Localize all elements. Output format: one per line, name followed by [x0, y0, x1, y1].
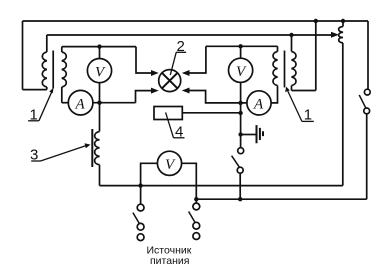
wire left outer vertical [22, 21, 24, 90]
switch S1 upper contact [137, 204, 144, 211]
wire left source switch stub [140, 186, 142, 205]
switch S4 upper contact [364, 89, 370, 95]
rheostat R1 coil top-right [339, 21, 343, 43]
label 1 right pointer [288, 91, 302, 122]
wire right outer vertical to switch S4 [367, 21, 369, 89]
wire lower-right arrow branch [189, 91, 247, 103]
ground symbol [257, 125, 264, 143]
label 3 underline [31, 160, 40, 162]
wiper arrowhead into rheostat [331, 32, 339, 38]
wire bottom line2 [196, 198, 366, 200]
wire down vertical through variac T3 [99, 103, 101, 132]
wire V1 bottom stub [99, 83, 101, 103]
label 1 left pointer [39, 91, 52, 121]
switch S2 blade [189, 212, 196, 223]
switch S2 upper contact [193, 203, 200, 210]
switch S1 lower contact [137, 223, 144, 230]
label 2 underline [176, 51, 186, 53]
switch S4 lower contact [364, 108, 370, 114]
transformer T2 primary coil [292, 35, 297, 91]
arrowhead upper-right into indicator [182, 70, 190, 76]
wire upper-left arrow branch [136, 47, 152, 73]
wire rheostat bottom vertical [342, 43, 344, 186]
label 1 left underline [28, 120, 39, 122]
wire T1 secondary top to node [62, 46, 136, 48]
label 2 pointer line [170, 52, 176, 75]
wire A1 right to node and on to lower-left arrow [93, 102, 136, 104]
node junction at V2 top [238, 44, 242, 48]
wire T3 bottom to bus [99, 165, 101, 186]
svg-text:V: V [236, 64, 247, 80]
transformer T2 right (label 1) secondary coil [273, 46, 278, 85]
node junction V3 right on line2 [194, 197, 198, 201]
svg-text:A: A [253, 97, 264, 113]
transformer T1 core [52, 51, 54, 89]
ammeter A1 [68, 90, 93, 115]
node junction at V1 top [97, 44, 101, 48]
svg-text:V: V [95, 64, 106, 80]
label 1 right underline [302, 120, 314, 122]
switch S1 blade [133, 213, 140, 224]
wire V1 top stub [99, 47, 101, 59]
node junction below V1 [97, 101, 101, 105]
node junction ground tap [238, 132, 242, 136]
label 3 pointer [41, 146, 87, 161]
wire y=46.3 to right transformer [206, 45, 278, 47]
label 3 pointer arrowhead [85, 143, 91, 148]
node junction rheostat top [341, 19, 345, 23]
wire A2 right to T2 secondary bottom [271, 86, 277, 103]
node junction T2 primary top on y35 line [289, 33, 293, 37]
wire V2 bottom stub [240, 82, 242, 134]
wire box 4 to V2 line [182, 112, 240, 114]
voltmeter V2 [229, 58, 253, 82]
label 1 left pointer arrowhead [49, 88, 53, 94]
shunt box 4 [154, 107, 182, 120]
wire A1 left to T1 secondary bottom [62, 102, 69, 104]
label 1 right pointer arrowhead [285, 87, 290, 92]
ammeter A2 [247, 91, 271, 115]
transformer T1 left (label 1) primary coil [42, 35, 47, 90]
wire V3 right leg [182, 163, 197, 199]
switch S4 blade [359, 95, 366, 108]
wire S4 down to line2 [366, 114, 368, 199]
wire T2 primary bottom to top bus [292, 21, 316, 91]
svg-text:питания: питания [150, 255, 189, 267]
svg-text:A: A [75, 97, 86, 113]
svg-text:4: 4 [175, 124, 183, 141]
wire V2 top stub [240, 46, 242, 58]
wire right source switch stub [195, 199, 197, 203]
wire lower-left arrow branch [136, 91, 153, 103]
svg-text:2: 2 [177, 38, 185, 55]
voltmeter V1 [87, 59, 111, 83]
wire ground tap [241, 134, 256, 136]
wire V2 line down to switch S3 [240, 135, 242, 148]
svg-text:V: V [165, 157, 176, 173]
variac T3 coil (label 3) [95, 132, 100, 165]
node junction A2 left [238, 101, 242, 105]
label 4 underline [174, 137, 185, 139]
terminal S2 to source [193, 233, 200, 240]
arrowhead upper-left into indicator [151, 70, 159, 76]
variac T3 core bar [91, 129, 93, 167]
label 4 pointer line [166, 112, 174, 137]
wire top bus line [23, 20, 369, 22]
switch S3 lower contact [237, 167, 243, 173]
arrowhead lower-right into indicator [182, 88, 190, 94]
wire S3 down to line2 [239, 173, 241, 199]
switch S3 upper contact [238, 148, 244, 154]
phase indicator U2 circle-X (label 2) [159, 70, 181, 92]
phase indicator X cross [162, 73, 177, 88]
voltmeter V3 bottom [157, 151, 181, 175]
wire bottom-left horizontal to T1 primary [23, 89, 47, 91]
switch S3 blade [232, 156, 240, 168]
wire bottom bus line1 [100, 185, 343, 187]
node junction on top bus [314, 19, 318, 23]
wire second bus line y=35 to rheostat wiper [47, 34, 332, 36]
node junction S3 on line2 [238, 197, 242, 201]
wire V3 left leg [141, 163, 158, 185]
transformer T1 secondary coil [62, 47, 67, 103]
terminal S1 to source [137, 234, 144, 241]
arrowhead lower-left into indicator [151, 88, 159, 94]
wire upper-right arrow branch [189, 46, 206, 73]
node junction V3 left on bus [138, 183, 142, 187]
transformer T2 core [284, 51, 286, 88]
switch S2 lower contact [193, 222, 200, 229]
node junction box4 wire [238, 111, 242, 115]
